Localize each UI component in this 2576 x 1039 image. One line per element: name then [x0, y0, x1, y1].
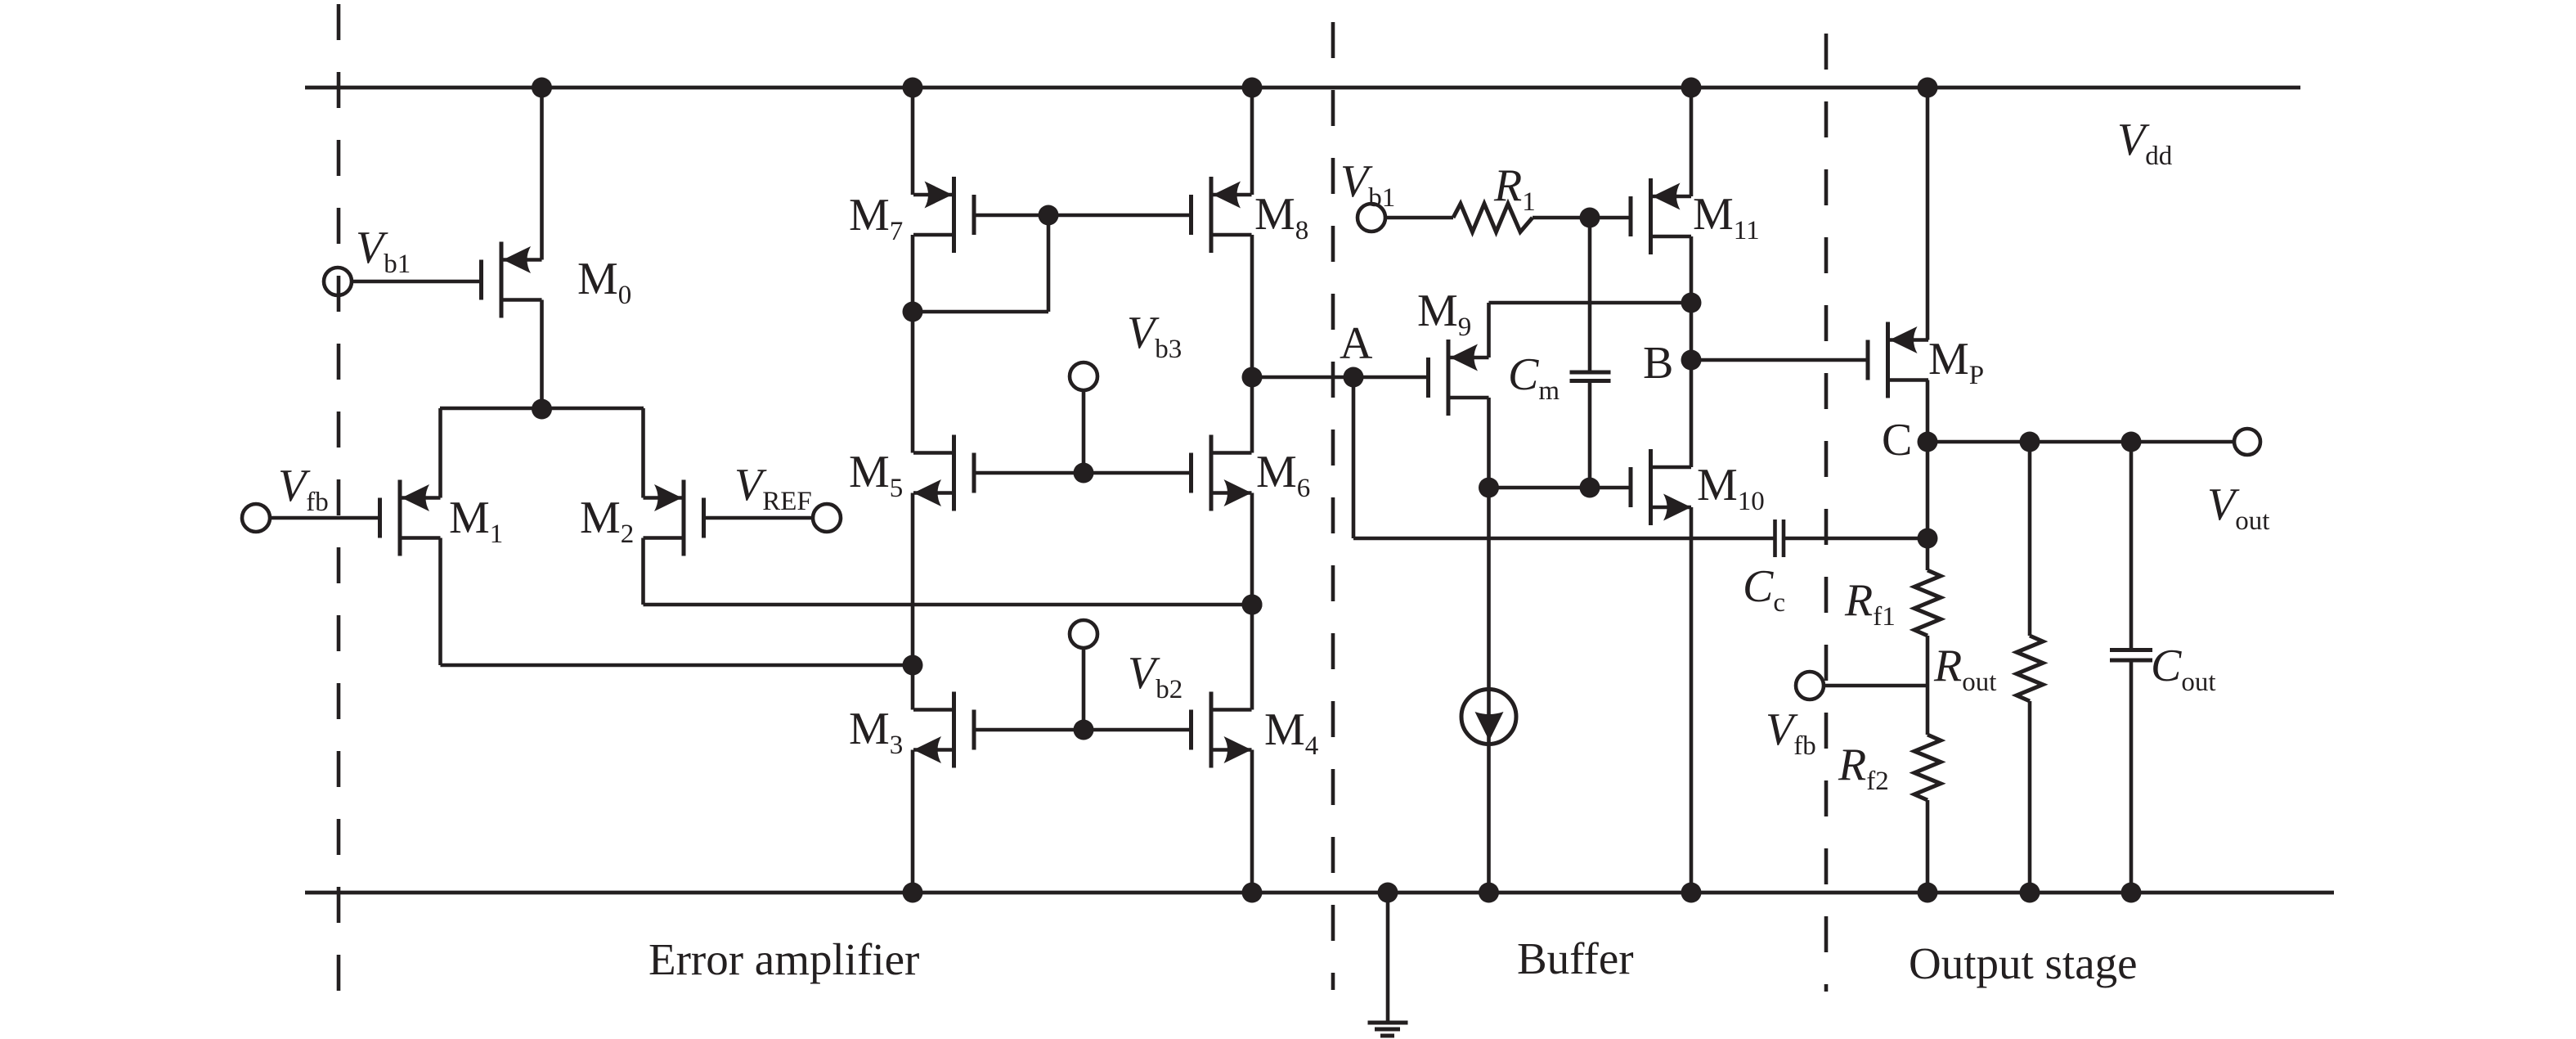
svg-text:A: A	[1340, 318, 1373, 369]
svg-text:Buffer: Buffer	[1517, 933, 1634, 983]
svg-text:B: B	[1643, 338, 1673, 389]
svg-text:C: C	[1882, 415, 1912, 466]
svg-text:Error amplifier: Error amplifier	[648, 934, 919, 984]
svg-text:Output stage: Output stage	[1909, 938, 2138, 988]
